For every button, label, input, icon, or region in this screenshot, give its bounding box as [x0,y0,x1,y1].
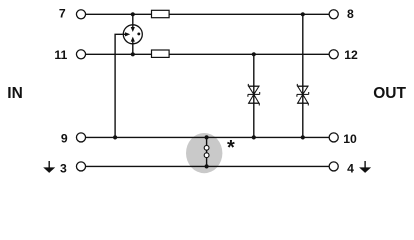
svg-text:*: * [227,137,235,159]
wire left diode branch vertical [253,54,255,137]
junction on line9 at test link [205,135,209,139]
wire test link vertical [206,137,208,166]
TVS diode D1 (left, bidirectional) [248,84,260,106]
svg-text:11: 11 [54,48,67,62]
svg-text:12: 12 [344,48,358,62]
terminal 12 circle [329,50,338,59]
test disconnect lower circle [204,153,209,158]
junction on line3 at test link [205,164,209,168]
gas discharge tube F1 gas dot [137,32,140,35]
gas discharge tube F1 top electrode arrow [131,25,135,32]
wire GDT branch vertical [132,14,134,54]
junction on line11 at GDT [131,52,135,56]
wire line7 right segment [169,13,329,15]
junction on line7 at GDT [131,12,135,16]
resistor R1 [152,10,170,17]
wire line7 left segment [86,13,152,15]
resistor R2 [152,50,170,57]
junction on line10 at left diode [252,135,256,139]
wire right branch vertical [302,14,304,137]
svg-text:4: 4 [347,161,354,175]
wire line11 left segment [86,53,152,55]
terminal 3 circle [76,162,85,171]
TVS diode D2 (right, bidirectional) [297,84,309,106]
wire GDT center arm [115,34,123,137]
gas discharge tube F1 left electrode arrow [123,32,131,36]
terminal 11 circle [76,50,85,59]
terminal 9 circle [76,133,85,142]
svg-text:OUT: OUT [373,85,406,102]
junction on line7 at right branch [301,12,305,16]
wire line9-10 [86,136,329,138]
terminal 8 circle [329,10,338,19]
test disconnect upper circle [204,145,209,150]
junction on line10 at right branch [301,135,305,139]
ground symbol right [359,161,371,173]
gas discharge tube F1 bottom electrode arrow [131,37,135,44]
ground symbol left [43,161,55,173]
wire line11 right segment [169,53,329,55]
terminal 4 circle [329,162,338,171]
svg-text:IN: IN [7,85,22,102]
test point pad (gray) [186,133,222,173]
terminal 10 circle [329,133,338,142]
svg-text:8: 8 [347,7,354,21]
svg-text:10: 10 [343,132,357,146]
terminal 7 circle [76,10,85,19]
junction on line9 at ground drop [113,135,117,139]
junction on line12 at left diode [252,52,256,56]
gas discharge tube F1 body [123,25,142,44]
wire line3-4 [86,165,329,167]
svg-text:7: 7 [59,7,66,21]
svg-text:3: 3 [60,161,67,175]
svg-text:9: 9 [61,132,68,146]
